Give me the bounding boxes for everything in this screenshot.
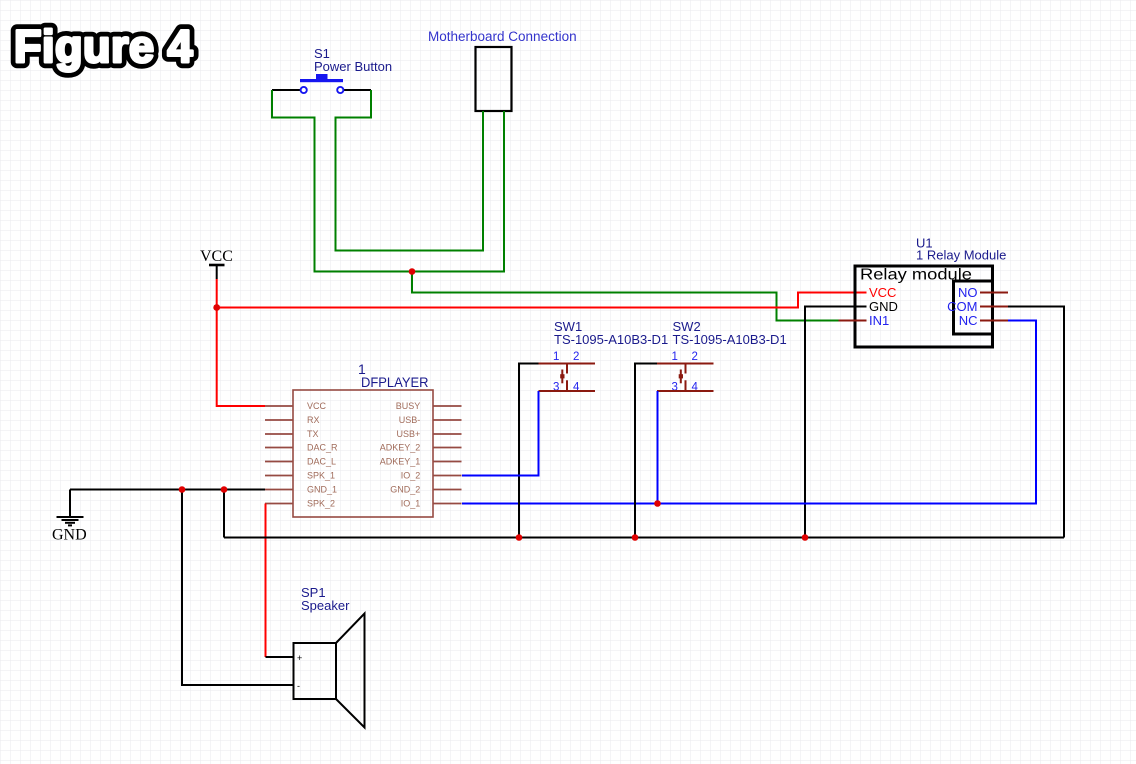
switch S1 plunger	[316, 74, 328, 80]
svg-text:+: +	[297, 653, 302, 663]
SW1 actuator tick	[561, 370, 563, 384]
switch S1 bar	[300, 79, 343, 82]
motherboard connector box	[476, 47, 512, 111]
svg-text:DFPLAYER: DFPLAYER	[361, 374, 429, 390]
svg-text:NO: NO	[958, 285, 978, 300]
svg-text:2: 2	[692, 351, 698, 363]
SW1 bottom contact bar	[539, 390, 596, 392]
svg-text:1: 1	[553, 351, 559, 363]
blue wire SW2 pin3 to IO_1	[657, 391, 659, 504]
black wire to speaker minus	[182, 490, 294, 686]
svg-text:TS-1095-A10B3-D1: TS-1095-A10B3-D1	[673, 332, 787, 347]
svg-text:VCC: VCC	[307, 401, 327, 411]
svg-text:1: 1	[672, 351, 678, 363]
black wire GND horizontal	[70, 489, 265, 491]
svg-text:SPK_2: SPK_2	[307, 499, 335, 509]
svg-text:GND: GND	[869, 299, 898, 314]
svg-text:COM: COM	[947, 299, 977, 314]
terminal circle S1 left	[301, 87, 307, 93]
VCC stem black	[216, 265, 218, 279]
svg-text:Speaker: Speaker	[301, 598, 350, 613]
svg-text:SPK_1: SPK_1	[307, 471, 335, 481]
svg-text:VCC: VCC	[869, 285, 896, 300]
junction green branch	[409, 268, 416, 275]
wire stub left of S1	[272, 89, 301, 91]
relay inner contact box	[954, 281, 993, 334]
svg-text:USB+: USB+	[397, 429, 421, 439]
DFPLAYER left pin stubs	[265, 406, 293, 504]
svg-text:1 Relay Module: 1 Relay Module	[916, 248, 1006, 263]
svg-text:VCC: VCC	[200, 248, 233, 265]
junction speaker branch	[179, 486, 186, 493]
speaker horn	[336, 614, 365, 728]
speaker body box	[294, 643, 337, 699]
terminal circle S1 right	[337, 87, 343, 93]
svg-text:2: 2	[573, 351, 579, 363]
svg-text:IN1: IN1	[869, 313, 889, 328]
relay module U1 outer box	[855, 266, 993, 347]
black wire relay GND down to bus	[805, 307, 867, 538]
junction bus SW2	[632, 534, 639, 541]
relay pin stub NO	[980, 292, 1008, 294]
svg-text:Motherboard Connection: Motherboard Connection	[428, 29, 577, 44]
wire stub right of S1	[344, 89, 372, 91]
red wire VCC down to DFPLAYER	[217, 308, 265, 407]
green wire net2: S1 right terminal run	[336, 90, 484, 251]
red wire SPK_2 down to speaker	[265, 504, 267, 658]
ground symbol stem	[69, 490, 71, 517]
svg-text:-: -	[297, 681, 300, 691]
svg-text:ADKEY_2: ADKEY_2	[380, 443, 421, 453]
black wire COM to bus	[1008, 307, 1064, 538]
svg-text:Power Button: Power Button	[314, 59, 392, 74]
red wire VCC stem	[216, 279, 218, 309]
DFPLAYER right pin names	[380, 401, 421, 509]
svg-text:BUSY: BUSY	[396, 401, 421, 411]
svg-text:GND_2: GND_2	[390, 485, 420, 495]
svg-text:GND: GND	[52, 527, 87, 544]
black wire down to bottom bus	[223, 490, 225, 538]
green wire net1 branch to relay IN1	[412, 272, 839, 321]
VCC power bar	[209, 264, 225, 267]
junction SW2 on IO_1 line	[654, 500, 661, 507]
SW1 top contact bar	[539, 363, 596, 365]
junction bus SW1	[516, 534, 523, 541]
SW2 actuator tick	[680, 370, 682, 384]
svg-text:GND_1: GND_1	[307, 485, 337, 495]
svg-text:IO_2: IO_2	[401, 471, 421, 481]
DFPLAYER left pin names	[307, 401, 338, 509]
black wire SW2 pin1 to bus	[635, 364, 657, 538]
Figure 4 logo	[14, 21, 193, 72]
red wire VCC horizontal to relay	[217, 293, 867, 308]
svg-text:RX: RX	[307, 415, 320, 425]
relay pin stub IN1	[839, 320, 867, 322]
DFPLAYER box	[293, 390, 433, 517]
SW2 post upper	[685, 364, 687, 374]
relay pin stub COM	[980, 306, 1008, 308]
blue wire SW1 pin3 to IO_2	[462, 391, 539, 476]
junction VCC	[213, 304, 220, 311]
junction bus relay GND	[802, 534, 809, 541]
svg-text:TS-1095-A10B3-D1: TS-1095-A10B3-D1	[554, 332, 668, 347]
junction bus branch	[221, 486, 228, 493]
black wire SW1 pin1 to bus	[519, 364, 539, 538]
svg-text:NC: NC	[959, 313, 978, 328]
SW2 top contact bar	[657, 363, 714, 365]
DFPLAYER right pin stubs	[433, 406, 462, 504]
speaker pin stub plus	[266, 656, 294, 658]
relay pin stub NC	[980, 320, 1008, 322]
green wire net1: S1 left terminal run	[272, 90, 504, 272]
SW1 post upper	[566, 364, 568, 374]
svg-text:DAC_R: DAC_R	[307, 443, 338, 453]
svg-text:DAC_L: DAC_L	[307, 457, 336, 467]
SW2 post lower	[685, 380, 687, 391]
black bottom ground bus	[224, 537, 1064, 539]
ground symbol bars	[57, 517, 84, 525]
svg-text:IO_1: IO_1	[401, 499, 421, 509]
svg-text:Figure 4: Figure 4	[14, 21, 193, 72]
svg-text:USB-: USB-	[399, 415, 421, 425]
SW2 bottom contact bar	[657, 390, 714, 392]
svg-text:ADKEY_1: ADKEY_1	[380, 457, 421, 467]
svg-text:TX: TX	[307, 429, 319, 439]
blue wire NC to IO_1	[462, 321, 1036, 504]
SW1 post lower	[566, 380, 568, 391]
